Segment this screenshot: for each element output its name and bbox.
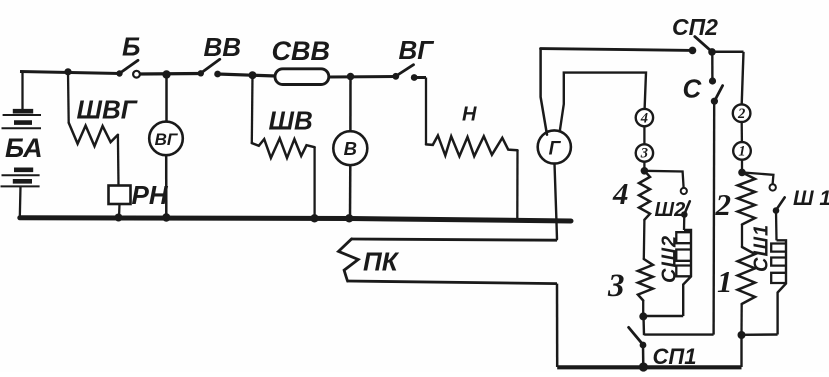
- svg-text:4: 4: [640, 110, 648, 126]
- svg-text:ВГ: ВГ: [155, 130, 179, 149]
- svg-text:2: 2: [715, 187, 732, 222]
- svg-text:СВВ: СВВ: [272, 36, 331, 66]
- svg-text:1: 1: [717, 264, 733, 299]
- svg-text:ШВ: ШВ: [269, 106, 313, 136]
- svg-text:В: В: [344, 138, 357, 159]
- svg-text:СШ1: СШ1: [751, 224, 773, 272]
- svg-text:1: 1: [738, 144, 745, 160]
- svg-text:Ш2: Ш2: [655, 199, 686, 221]
- svg-text:ВГ: ВГ: [399, 35, 435, 65]
- svg-text:ПК: ПК: [363, 247, 400, 277]
- svg-text:4: 4: [612, 176, 629, 211]
- svg-text:ВВ: ВВ: [204, 32, 242, 62]
- svg-text:БА: БА: [5, 133, 43, 163]
- svg-text:Н: Н: [462, 104, 477, 126]
- svg-text:РН: РН: [132, 180, 169, 210]
- svg-text:С: С: [683, 74, 703, 104]
- svg-text:Ш 1: Ш 1: [793, 187, 829, 210]
- svg-text:Г: Г: [549, 139, 562, 160]
- svg-text:3: 3: [640, 146, 648, 162]
- svg-text:СП1: СП1: [653, 344, 697, 369]
- svg-text:Б: Б: [122, 32, 140, 62]
- svg-text:2: 2: [737, 106, 745, 122]
- svg-text:СП2: СП2: [672, 14, 718, 40]
- svg-text:3: 3: [607, 268, 625, 304]
- svg-text:СШ2: СШ2: [659, 235, 681, 283]
- svg-text:ШВГ: ШВГ: [77, 95, 138, 125]
